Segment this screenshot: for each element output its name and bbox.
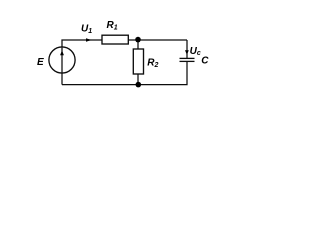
source arrow head — [60, 50, 64, 55]
node bottom junction — [136, 82, 142, 88]
source E circle — [49, 47, 75, 73]
arrow U1 — [86, 38, 92, 42]
wire right branch down to capacitor — [186, 40, 188, 58]
wire capacitor to bottom corner — [62, 62, 187, 85]
wire R1 to right corner — [128, 39, 187, 41]
resistor R2 — [133, 49, 143, 74]
wire R2 bottom — [137, 74, 139, 85]
resistor R1 — [102, 35, 128, 44]
node top junction — [135, 37, 141, 43]
svg-text:C: C — [201, 55, 209, 66]
wire top (source to R1) — [62, 40, 102, 48]
svg-text:U1: U1 — [81, 24, 92, 36]
capacitor C plates — [180, 58, 195, 61]
source arrow shaft — [61, 48, 63, 73]
svg-text:R1: R1 — [107, 20, 118, 32]
svg-text:R2: R2 — [147, 58, 158, 70]
wire source bottom — [61, 73, 63, 85]
wire R2 top — [137, 40, 139, 49]
svg-text:Uc: Uc — [190, 46, 201, 57]
arrow Uc — [185, 50, 189, 55]
svg-text:E: E — [37, 57, 44, 68]
